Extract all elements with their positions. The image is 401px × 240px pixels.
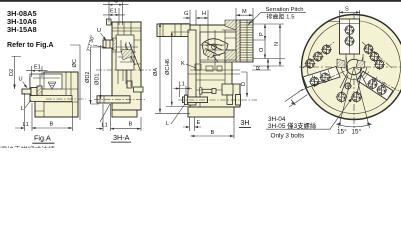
svg-text:排齒距 1.5: 排齒距 1.5 <box>267 12 296 20</box>
svg-text:ØA: ØA <box>153 68 159 76</box>
svg-text:K: K <box>181 61 185 67</box>
3H wedge mechanism body <box>202 39 228 56</box>
svg-text:3H-05 僅3支螺絲: 3H-05 僅3支螺絲 <box>268 121 317 130</box>
svg-text:3H-A: 3H-A <box>113 133 130 142</box>
svg-text:M: M <box>242 9 247 15</box>
inner rim circle <box>308 21 401 114</box>
svg-text:Refer to Fig.A: Refer to Fig.A <box>7 41 54 49</box>
lower-left jaw <box>303 67 340 88</box>
3H-A internal verticals <box>112 22 141 84</box>
svg-text:E1: E1 <box>34 65 41 71</box>
dimension B (Fig.A) <box>32 102 73 131</box>
dimension OD2 (3H-A) <box>91 47 104 104</box>
dimension L1 (3H) <box>174 86 193 97</box>
svg-text:B: B <box>211 130 215 136</box>
3H-A top step <box>107 19 112 25</box>
mount row centerline left <box>303 42 334 68</box>
svg-text:覑格表詳細寸法請: 覑格表詳細寸法請 <box>0 145 55 148</box>
dimension B (3H-A) <box>111 117 142 131</box>
svg-text:Only 3 bolts: Only 3 bolts <box>271 133 305 140</box>
3H rod end washer <box>185 95 188 105</box>
center hole <box>346 59 361 74</box>
3H-A jaw slot <box>116 35 134 70</box>
svg-text:L1: L1 <box>179 82 185 88</box>
lower-left jaw serration lines <box>312 70 332 86</box>
hatched wedge left of center <box>337 59 345 68</box>
dimension OC H6 (3H) <box>166 32 190 107</box>
3H small bolt shaft <box>202 89 212 92</box>
3H back flange slab <box>157 24 190 37</box>
svg-text:G: G <box>184 11 188 17</box>
dimension OA (3H) <box>155 23 190 113</box>
svg-text:D: D <box>241 82 247 86</box>
svg-text:ØD2: ØD2 <box>85 71 91 83</box>
Fig.A actuator bar <box>30 96 72 102</box>
3H small bolt washer <box>200 88 203 94</box>
dimension S <box>339 10 359 19</box>
svg-text:L: L <box>166 121 169 127</box>
dimension H (3H) <box>200 10 208 25</box>
svg-text:L1: L1 <box>102 123 108 129</box>
3H small bolt head <box>212 89 216 94</box>
3H-A jaw taper line <box>125 42 141 72</box>
dimension L1 (Fig.A) <box>15 93 32 131</box>
dimension P <box>253 24 284 40</box>
Fig.A body internal lines <box>35 72 78 117</box>
3H body step edge <box>232 83 241 85</box>
3H-A jaw bolt head <box>127 81 132 88</box>
3H T-nut seats <box>206 66 213 71</box>
center boss ring <box>342 67 367 79</box>
3H wedge mechanism <box>205 42 222 62</box>
svg-text:B: B <box>50 122 54 128</box>
svg-text:U: U <box>19 77 23 83</box>
top border line <box>0 0 401 2</box>
dimension D2 <box>12 56 22 89</box>
jaw bolts top pair <box>0 0 1 1</box>
3H-A main centerline <box>96 69 151 71</box>
jaw width ext lines outside rim <box>285 89 308 107</box>
3H body main block <box>190 25 240 107</box>
3H tie rod <box>183 97 208 103</box>
dimension N <box>253 24 284 66</box>
3H-A body main block <box>112 22 141 110</box>
Fig.A jaw taper lines <box>33 74 60 89</box>
serration pitch callout <box>248 7 306 25</box>
svg-text:15°: 15° <box>352 128 362 136</box>
3H white corner under serrated jaw <box>232 62 253 84</box>
svg-text:N: N <box>274 42 280 46</box>
bottom bolt pair <box>336 91 348 103</box>
dimension B (3H) <box>191 117 235 139</box>
mount row centerline right <box>362 42 392 68</box>
3H-A right stud <box>134 87 144 92</box>
3H serrated jaw <box>240 20 253 62</box>
dimension R <box>252 59 271 71</box>
dimension D <box>241 72 247 97</box>
svg-text:S: S <box>345 7 349 13</box>
svg-text:ØD1: ØD1 <box>95 73 101 85</box>
dimension ØC (Fig.A) <box>70 45 80 120</box>
3H-A stud upper <box>103 40 113 48</box>
dimension OD1 (3H-A) <box>100 45 102 99</box>
15 degree fan right line <box>354 67 370 128</box>
Fig.A jaw slot white <box>30 74 62 89</box>
3H bottom band <box>188 107 234 117</box>
svg-text:7°7'30": 7°7'30" <box>86 34 96 52</box>
3H hub step <box>222 84 233 95</box>
outer circle <box>302 15 401 120</box>
jaw bolts lower-right pair <box>367 78 378 89</box>
3H-A jaw steps <box>116 40 138 62</box>
3H rod head <box>236 95 241 106</box>
svg-text:H: H <box>202 11 206 17</box>
3H-A jaw hatch <box>121 49 132 60</box>
svg-text:15°: 15° <box>337 128 347 136</box>
svg-text:D2: D2 <box>9 69 15 76</box>
svg-text:E1: E1 <box>110 9 117 15</box>
3H jaw slot <box>200 32 236 62</box>
svg-text:B: B <box>129 122 133 128</box>
3H-A wedge bar <box>97 96 130 103</box>
top jaw guide lines <box>346 54 363 60</box>
3H-A bottom band <box>112 110 137 117</box>
svg-text:G: G <box>114 0 118 5</box>
dimension E1 (Fig.A) <box>26 66 48 77</box>
center guide chevrons <box>340 57 368 94</box>
dimension L1 (3H-A) <box>96 104 111 131</box>
svg-text:R: R <box>256 66 262 70</box>
fan arc <box>337 124 372 127</box>
svg-text:E: E <box>197 120 201 126</box>
Fig.A stud head <box>31 88 37 96</box>
Fig.A stud shaft <box>22 89 31 94</box>
Fig.A body main block <box>30 72 78 117</box>
jaw bolts lower-left pair <box>319 72 330 83</box>
dimension E (3H) <box>183 117 201 131</box>
dimension M (3H) <box>236 8 253 24</box>
svg-text:ØC: ØC <box>72 59 78 67</box>
svg-text:Fig.A: Fig.A <box>34 134 51 143</box>
svg-text:3H-15A8: 3H-15A8 <box>7 25 37 34</box>
leader L (3H-A) <box>100 104 110 122</box>
Fig.A centerline <box>46 98 86 100</box>
dimension G (3H) <box>183 10 203 25</box>
3H hatch slot bottom patch <box>225 50 236 62</box>
3H wedge pivot pin <box>212 45 217 50</box>
dimension G (3H-A) <box>103 2 129 25</box>
small center-bottom bolt <box>344 82 352 90</box>
hatched wedge right of center <box>356 60 365 68</box>
dimension E1 (3H-A) <box>103 8 125 25</box>
lower-right jaw <box>357 71 393 100</box>
mount holes right row <box>363 44 374 55</box>
svg-text:P: P <box>259 32 265 36</box>
lower-right jaw serration lines <box>363 72 385 91</box>
3H-04 callout <box>266 98 352 140</box>
3H-A stud washer hatch <box>113 38 117 50</box>
svg-text:O: O <box>259 47 265 52</box>
3H front plate <box>188 30 196 105</box>
svg-text:L1: L1 <box>23 122 29 128</box>
top jaw <box>340 19 360 54</box>
dimension O <box>253 40 285 59</box>
svg-text:3H-04: 3H-04 <box>268 116 286 123</box>
3H internal structure <box>188 25 240 107</box>
3H-A centerline <box>94 99 146 101</box>
lower-left jaw axis <box>298 67 354 92</box>
horizontal centerline <box>299 66 401 68</box>
mount holes left row <box>321 44 332 55</box>
lower-right jaw axis <box>354 67 401 92</box>
svg-text:3H: 3H <box>241 120 250 127</box>
3H hatch corner patch <box>225 20 236 30</box>
bottom-left clipped text remnant <box>0 145 55 154</box>
svg-text:ØC H6: ØC H6 <box>165 59 171 75</box>
Fig.A washer hatched <box>37 86 42 97</box>
svg-text:L: L <box>21 106 24 112</box>
vertical centerline <box>353 13 355 130</box>
3H sectioned jaw hatch column <box>236 20 240 62</box>
15 degree fan left line <box>338 67 354 128</box>
3H centerline <box>178 99 257 101</box>
3H collar <box>227 95 233 105</box>
